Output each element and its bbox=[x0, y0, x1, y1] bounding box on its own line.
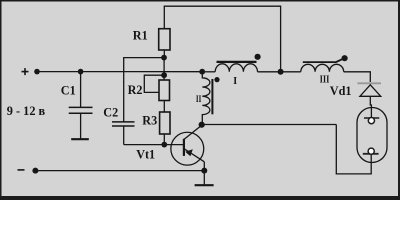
node R2 top dot bbox=[161, 72, 167, 78]
wire diode to lamp bbox=[370, 96, 371, 117]
resistor R3 bbox=[160, 112, 170, 134]
inductor winding II bbox=[202, 72, 212, 125]
capacitor C1 bbox=[69, 72, 93, 139]
wire top rail bbox=[37, 71, 202, 73]
diode Vd1 bbox=[357, 83, 381, 96]
svg-text:C2: C2 bbox=[103, 105, 118, 119]
transistor Vt1 bbox=[171, 125, 204, 170]
svg-text:III: III bbox=[320, 75, 330, 86]
lamp bottom electrode bbox=[363, 148, 379, 154]
node collector dot bbox=[199, 122, 205, 128]
wire C2 top link bbox=[124, 58, 164, 122]
phasing dot winding I bbox=[255, 54, 261, 60]
wire R3 to base node bbox=[163, 134, 165, 145]
node R1/C2 dot bbox=[161, 55, 167, 61]
wire base bbox=[164, 144, 184, 146]
svg-text:Vd1: Vd1 bbox=[330, 84, 352, 98]
svg-text:Vt1: Vt1 bbox=[136, 147, 155, 161]
node C1 junction bbox=[78, 69, 84, 75]
node plus dot bbox=[34, 69, 40, 75]
wire winding III to diode bbox=[344, 72, 371, 82]
wire top feed from R1 bbox=[164, 6, 280, 72]
svg-text:I: I bbox=[233, 76, 237, 87]
svg-text:R3: R3 bbox=[142, 114, 157, 128]
node base dot bbox=[161, 142, 167, 148]
svg-text:II: II bbox=[196, 95, 202, 105]
node emitter/rail dot bbox=[201, 168, 207, 174]
inductor winding III bbox=[301, 59, 344, 72]
phasing dot winding II bbox=[214, 77, 219, 82]
plus terminal bbox=[22, 68, 29, 75]
resistor R2 bbox=[159, 80, 170, 101]
node minus dot bbox=[32, 168, 38, 174]
wire R2 wiper loop bbox=[144, 75, 164, 92]
capacitor C2 bbox=[112, 122, 135, 145]
wire winding I to junction bbox=[258, 71, 281, 73]
wire C2 to base node bbox=[124, 144, 165, 146]
wire bottom rail bbox=[35, 170, 204, 172]
wire ground lead bbox=[203, 171, 205, 185]
wire lamp return loop bbox=[336, 125, 371, 174]
ground bar bbox=[195, 184, 214, 186]
ground bar under C1 bbox=[71, 138, 89, 140]
svg-text:C1: C1 bbox=[61, 83, 76, 97]
wire R2 to R3 bbox=[163, 101, 165, 113]
wire collector to lamp loop bbox=[202, 124, 337, 126]
minus terminal bbox=[18, 169, 25, 171]
resistor R1 bbox=[159, 29, 170, 50]
wire junction to winding III bbox=[281, 71, 301, 73]
lamp top electrode bbox=[364, 118, 379, 124]
svg-text:R1: R1 bbox=[133, 28, 148, 42]
wire R1 to R2 bbox=[163, 58, 165, 80]
svg-text:9 - 12 в: 9 - 12 в bbox=[7, 104, 46, 118]
wire R1 bottom bbox=[163, 50, 165, 58]
lamp bulb body bbox=[357, 108, 387, 163]
phasing dot winding III bbox=[342, 55, 348, 61]
inductor winding I bbox=[202, 62, 257, 72]
node junction dot bbox=[278, 69, 284, 75]
svg-text:R2: R2 bbox=[128, 83, 143, 97]
node rail/winding junction dot bbox=[199, 69, 205, 75]
